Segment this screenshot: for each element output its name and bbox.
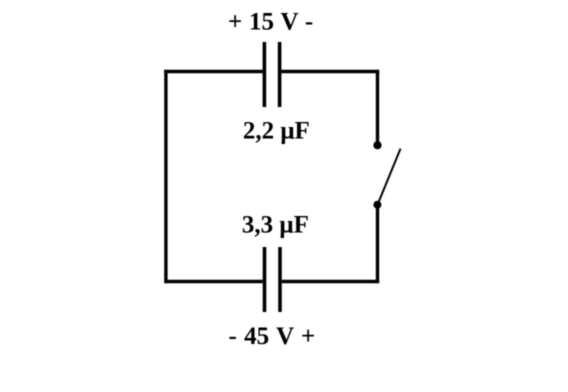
wire: left side vertical bbox=[164, 70, 167, 283]
svg-text:+ 15 V -: + 15 V - bbox=[228, 8, 313, 35]
capacitor C2 (3,3 uF) plates bbox=[265, 247, 281, 312]
wire: right lower (switch contact to bottom corner) bbox=[376, 205, 379, 283]
switch S1 upper contact node bbox=[373, 141, 381, 149]
wire: bottom, left segment bbox=[164, 280, 262, 283]
capacitor C1 (2,2 uF) plates bbox=[264, 42, 279, 107]
wire: right upper (top corner to switch contact) bbox=[376, 70, 379, 142]
wire: bottom, right segment bbox=[282, 280, 379, 283]
switch S1 blade (open) bbox=[378, 149, 401, 205]
svg-text:- 45 V +: - 45 V + bbox=[229, 323, 316, 350]
svg-text:2,2 μF: 2,2 μF bbox=[243, 118, 310, 145]
wire: top, right segment bbox=[281, 70, 379, 73]
wire: top, left segment bbox=[164, 70, 262, 73]
svg-text:3,3 μF: 3,3 μF bbox=[242, 212, 309, 239]
switch S1 lower contact node bbox=[373, 201, 381, 209]
